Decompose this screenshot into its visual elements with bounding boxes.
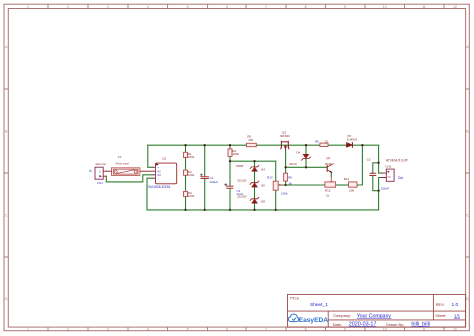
svg-text:D4: D4: [296, 150, 300, 154]
connector CN2: [382, 158, 408, 181]
svg-text:Out: Out: [398, 176, 404, 180]
svg-text:100nF: 100nF: [381, 186, 390, 190]
node B D7 bottom: [305, 166, 307, 168]
node B gate: [284, 166, 286, 168]
svg-text:9: 9: [344, 327, 346, 331]
svg-text:Sheet:: Sheet:: [435, 313, 446, 318]
junction R1 bottom rail: [184, 209, 186, 211]
potentiometer R13: [267, 176, 288, 196]
EasyEDA logo: [288, 314, 328, 324]
svg-text:10: 10: [383, 327, 387, 331]
title block: [288, 294, 466, 327]
svg-text:IRF840: IRF840: [280, 134, 290, 138]
junction R13 bottom rail: [275, 209, 277, 211]
svg-text:BU1506-E3/51: BU1506-E3/51: [148, 185, 170, 189]
svg-text:100k: 100k: [188, 155, 195, 159]
svg-text:Date:: Date:: [333, 322, 342, 327]
svg-text:100: 100: [248, 138, 253, 142]
junction R6b wiper line: [284, 184, 286, 186]
svg-text:R11: R11: [344, 177, 350, 181]
svg-text:In: In: [89, 169, 92, 173]
wire top rail: [148, 144, 379, 146]
svg-text:2: 2: [67, 327, 69, 331]
capacitor C1: [200, 174, 218, 184]
resistor R6b 5k: [284, 173, 293, 185]
wire R12 to R11: [336, 184, 349, 186]
svg-text:F1: F1: [118, 155, 122, 159]
svg-text:Drawn By:: Drawn By:: [386, 322, 404, 327]
svg-text:3: 3: [107, 5, 109, 9]
svg-text:1/1: 1/1: [454, 313, 461, 318]
svg-text:8: 8: [305, 5, 307, 9]
mosfet Q3 IRF840: [280, 130, 290, 149]
svg-text:12: 12: [453, 5, 457, 9]
svg-text:100uF: 100uF: [209, 180, 218, 184]
svg-text:ZD10: ZD10: [288, 162, 297, 166]
junction C3 top: [377, 162, 379, 164]
wire C3 branch: [373, 163, 379, 191]
node B gate line: [286, 149, 327, 167]
junction R1 top rail: [184, 144, 186, 146]
svg-text:5: 5: [187, 5, 189, 9]
svg-text:6: 6: [226, 327, 228, 331]
wire CN1 to bridge AC2: [106, 175, 153, 182]
svg-text:2: 2: [67, 5, 69, 9]
svg-text:10: 10: [383, 5, 387, 9]
svg-text:REV:: REV:: [436, 302, 445, 307]
bridge rectifier Q1: [148, 157, 176, 189]
R13 column: [275, 161, 277, 210]
node A line R4 to R13: [230, 160, 276, 162]
wire bridge minus feed: [147, 178, 153, 210]
junction R4 top rail: [229, 144, 231, 146]
svg-text:5k: 5k: [289, 182, 293, 186]
svg-text:ZD100: ZD100: [236, 195, 246, 199]
svg-text:AT242A-5.0-2P: AT242A-5.0-2P: [386, 158, 408, 162]
svg-text:4: 4: [147, 5, 149, 9]
junction C3 bottom: [377, 190, 379, 192]
resistor chain column: [185, 145, 187, 210]
R6b column: [285, 167, 287, 185]
junction C2 bottom rail: [229, 209, 231, 211]
svg-text:EasyEDA: EasyEDA: [299, 317, 329, 324]
zener D8 bottom: [236, 195, 265, 204]
svg-text:Company:: Company:: [333, 313, 351, 318]
potentiometer R12: [325, 177, 336, 198]
svg-text:D4: D4: [261, 168, 265, 172]
diode D5 1N4001: [346, 134, 357, 148]
svg-text:R6: R6: [315, 139, 319, 143]
zener chain column: [254, 161, 256, 210]
svg-text:7: 7: [265, 327, 267, 331]
zener D6 middle: [236, 179, 265, 188]
svg-text:B: B: [5, 130, 7, 134]
capacitor C1 column: [204, 145, 206, 210]
svg-text:100k: 100k: [232, 152, 239, 156]
svg-text:TITLE:: TITLE:: [290, 296, 300, 300]
svg-text:CN2: CN2: [385, 165, 391, 169]
junction zener chain bottom rail: [253, 209, 255, 211]
svg-text:CN1: CN1: [97, 181, 103, 185]
capacitor C3: [367, 157, 390, 190]
svg-text:D8: D8: [261, 200, 265, 204]
svg-text:B: B: [466, 130, 468, 134]
junction D7 top rail: [305, 144, 307, 146]
svg-text:1k: 1k: [326, 194, 330, 198]
svg-text:R13: R13: [267, 176, 273, 180]
resistor R6 22: [315, 139, 328, 146]
resistor R3: [184, 191, 195, 198]
zener D7 ZD10 gate: [288, 150, 310, 166]
svg-text:Fuse seal: Fuse seal: [116, 162, 129, 166]
svg-text:D6: D6: [261, 184, 265, 188]
svg-text:1.0: 1.0: [452, 302, 459, 308]
junction D5 output node: [361, 144, 363, 146]
svg-text:C3: C3: [367, 157, 371, 161]
resistor R11: [344, 177, 357, 192]
svg-text:11: 11: [422, 5, 426, 9]
resistor R1: [184, 152, 195, 159]
svg-text:100k: 100k: [281, 191, 288, 195]
svg-text:klemme: klemme: [96, 162, 107, 166]
D4 zd10 column: [305, 145, 307, 167]
svg-text:1: 1: [27, 327, 29, 331]
resistor R4: [228, 149, 239, 157]
svg-text:3: 3: [107, 327, 109, 331]
svg-text:R12: R12: [325, 188, 331, 192]
svg-text:1N4001: 1N4001: [347, 137, 358, 141]
svg-text:ZD66: ZD66: [235, 164, 244, 168]
svg-text:100k: 100k: [188, 194, 195, 198]
zener D4 top: [235, 164, 265, 172]
transistor Q2 BC847: [325, 156, 335, 172]
svg-text:11: 11: [422, 327, 426, 331]
svg-text:12: 12: [453, 327, 457, 331]
wire output down to CN2 pin1: [379, 145, 382, 173]
svg-text:1: 1: [27, 5, 29, 9]
junction C1 bottom rail: [204, 209, 206, 211]
wire feedback line: [278, 184, 325, 186]
svg-text:9: 9: [344, 5, 346, 9]
wire bridge plus feed: [148, 145, 153, 167]
svg-text:7: 7: [265, 5, 267, 9]
wire R11 up to rail: [357, 145, 362, 185]
resistor R2: [184, 170, 195, 177]
resistor R5 100: [247, 134, 257, 146]
Q2 emitter to R12 wiper: [330, 172, 332, 177]
svg-text:R6: R6: [288, 175, 292, 179]
junction C1 top rail: [204, 144, 206, 146]
connector CN1: [89, 162, 106, 185]
node A zener chain top: [253, 160, 255, 162]
svg-text:BC847: BC847: [325, 162, 335, 166]
capacitor C2: [225, 184, 244, 196]
svg-text:Q1: Q1: [162, 157, 166, 161]
wire bottom rail: [147, 209, 379, 211]
svg-text:Sheet_1: Sheet_1: [310, 302, 328, 308]
svg-text:22: 22: [325, 139, 329, 143]
R4 C2 column: [229, 145, 231, 210]
node A R4 bottom: [229, 160, 231, 162]
svg-text:4: 4: [147, 327, 149, 331]
svg-text:5: 5: [187, 327, 189, 331]
svg-text:Q2: Q2: [326, 156, 330, 160]
svg-text:200: 200: [349, 188, 354, 192]
svg-text:100k: 100k: [188, 173, 195, 177]
svg-text:ZD100: ZD100: [236, 179, 246, 183]
svg-text:-: -: [157, 177, 158, 181]
svg-text:6: 6: [226, 5, 228, 9]
wire CN2 pin2 down to bottom rail: [379, 178, 382, 210]
fuse F1: [106, 155, 153, 176]
svg-text:8: 8: [305, 327, 307, 331]
